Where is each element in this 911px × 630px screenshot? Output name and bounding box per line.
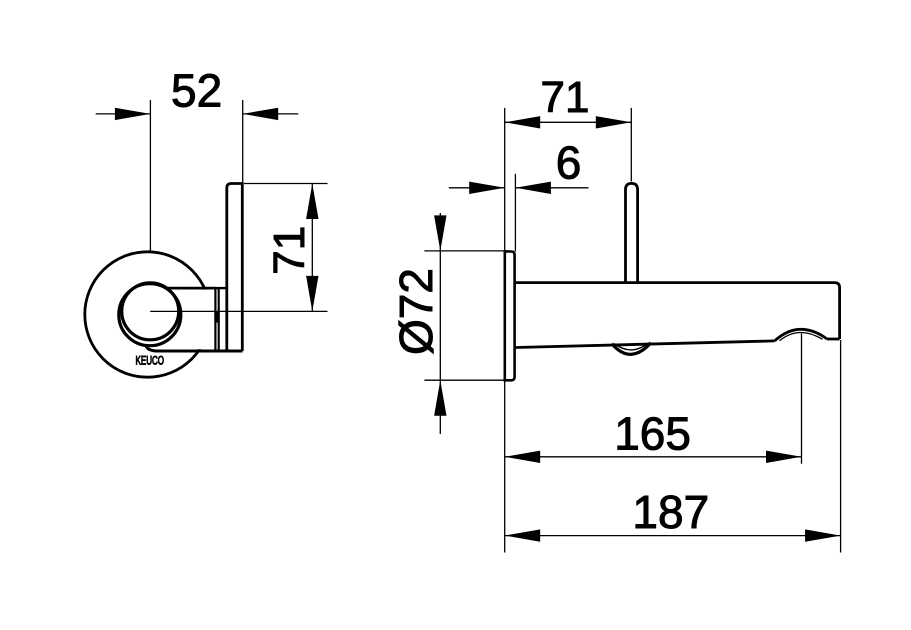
wall plate side profile [505,252,515,381]
dim 187 dimension line [505,535,841,537]
dim 165 right arrowhead [766,451,802,463]
dim 187 left arrowhead [505,529,541,541]
dim 187 right extension line (spout tip) [840,340,842,553]
aerator bump inner thin arc [780,333,823,341]
cylinder end cap line 2 [218,288,220,350]
dim 71 top left arrowhead [505,116,541,128]
cap-to-lever shoulder segment [215,287,227,289]
dim Ø72 top arrowhead [434,215,446,251]
dim 71 top: left extension line (wall face) [504,108,506,553]
aerator bump outer arc [775,329,828,341]
lever bar outline [227,184,243,352]
cartridge dome outer arc [612,343,651,355]
dim 52 left arrowhead [115,108,150,120]
svg-text:52: 52 [171,65,222,117]
dim 71 left-view top arrowhead [306,184,318,220]
dim 52 extension line right [242,100,244,183]
dim 71 left-view top extension line [244,183,328,185]
joystick lever side view [626,183,638,282]
junction blob on cap lines at centerline [214,311,219,322]
handle base circle [119,284,181,346]
spout tip bottom segment [827,338,840,341]
dim 165 dimension line [505,456,802,458]
handle cylinder top edge [166,287,215,290]
horizontal centerline through handle axis [150,310,327,312]
svg-text:187: 187 [632,486,709,538]
handle front face circle [122,283,179,340]
vertical centerline above plate [149,100,151,251]
dim 71 top dimension line [505,121,632,123]
dim 6 right arrowhead [515,182,551,194]
dim 187 right arrowhead [805,529,841,541]
dim 52 dimension line [96,113,299,115]
cartridge dome inner arc [615,343,649,350]
hidden-line mask over plate circle behind handle cylinder [183,290,214,350]
spout underside line [516,341,775,348]
dim 71 left-view dimension line [311,184,313,312]
svg-text:71: 71 [265,226,314,275]
svg-text:6: 6 [556,137,582,189]
dim Ø72 dimension line [439,213,441,434]
dim 6 dimension line tails [449,187,589,189]
dim 165 left arrowhead [505,451,541,463]
dim 6 extension line right [514,174,516,252]
dim Ø72 bottom arrowhead [434,380,446,416]
svg-text:KEUCO: KEUCO [136,356,165,368]
dim 71 left-view bottom arrowhead [306,276,318,312]
dim 71 top right arrowhead [596,116,632,128]
cylinder end cap line 1 [214,288,216,350]
dim 52 right arrowhead [243,108,279,120]
svg-text:71: 71 [541,73,590,122]
spout body top and tip edge [515,283,840,339]
dim 71 top: right extension line [630,108,632,182]
svg-text:165: 165 [614,408,691,460]
dim Ø72 top extension line [424,250,509,252]
escutcheon plate circle [85,252,210,377]
handle cylinder bottom edge [146,345,243,351]
dim Ø72 bottom extension line [424,379,509,381]
dim 165 right extension line (aerator center) [801,334,803,464]
svg-text:Ø72: Ø72 [390,268,442,355]
dim 6 left arrowhead [469,182,505,194]
